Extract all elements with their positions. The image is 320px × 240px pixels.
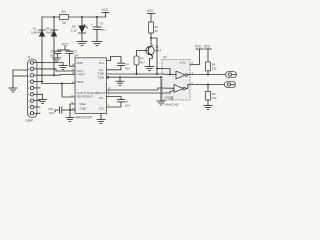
svg-text:VDD: VDD [77, 61, 84, 65]
svg-text:104: 104 [125, 67, 130, 71]
node collector branch [156, 68, 158, 70]
svg-text:47u: 47u [101, 28, 106, 32]
svg-text:DB9F: DB9F [26, 119, 34, 123]
resistor R1 [60, 10, 69, 25]
ground left-bottom [66, 118, 74, 122]
svg-text:104: 104 [74, 54, 79, 58]
IC pin numbers left [72, 63, 75, 111]
wire R6 to gnd [207, 100, 209, 106]
wire pin2 to IC [40, 69, 76, 71]
svg-text:104: 104 [125, 104, 130, 108]
wire collector branch to box [157, 68, 162, 70]
svg-text:5.1Z: 5.1Z [71, 29, 77, 33]
connector P2 [225, 82, 236, 88]
wire loop1 return [107, 66, 122, 70]
power VCC R5 [204, 45, 212, 62]
node bus-zener [81, 16, 83, 18]
node collector joinA [156, 73, 158, 75]
ground under zener [77, 42, 87, 46]
connector J1 DB9 [26, 55, 38, 123]
zener D6 [71, 17, 88, 42]
op-amp U1 IC box [75, 58, 107, 120]
resistor R3 [134, 56, 145, 65]
op-amp U2 module box [162, 55, 190, 106]
wire top power bus [42, 16, 106, 18]
svg-text:1N4148: 1N4148 [46, 31, 56, 35]
svg-text:1N4148: 1N4148 [31, 31, 41, 35]
svg-text:R3OUT: R3OUT [96, 91, 106, 95]
wire loopback [62, 84, 76, 98]
svg-text:GND: GND [80, 107, 88, 111]
wire pin3 to IC [40, 74, 76, 77]
node R6 top [207, 84, 209, 86]
node d2 join [53, 74, 55, 76]
transistor Q1 [140, 45, 162, 57]
node loopback [61, 83, 63, 85]
ground mid [116, 81, 124, 85]
wire collector to box [151, 38, 157, 74]
wire VCC riser [105, 13, 107, 18]
svg-text:VEE: VEE [80, 102, 86, 106]
wire gnd drop right [160, 77, 162, 101]
gate G2 [162, 85, 190, 94]
pin numbers right mid [108, 87, 111, 107]
svg-text:MAX202CP: MAX202CP [76, 116, 93, 120]
svg-text:T RXT: T RXT [77, 73, 86, 77]
wire line A T1OUT [107, 73, 163, 75]
svg-text:R1N R2OUT: R1N R2OUT [77, 95, 94, 99]
DB9 pins [30, 61, 33, 115]
capacitor C4 [118, 62, 131, 71]
svg-text:C4: C4 [125, 62, 129, 66]
diode D2 [46, 27, 58, 37]
wire R5 to lineA [207, 71, 209, 75]
wire pin1 ground drop [40, 63, 63, 66]
node R3 bottom [136, 73, 138, 75]
svg-text:T2IN: T2IN [98, 76, 105, 80]
svg-text:10: 10 [62, 21, 66, 25]
wire DB9 shield left2 [13, 75, 28, 77]
wire IC bottom gnd [100, 114, 102, 120]
wire base [137, 51, 141, 57]
wire charge pump loop2 [107, 97, 122, 100]
resistor R6 [205, 85, 217, 101]
svg-text:9014: 9014 [155, 49, 162, 53]
ground mid-left [59, 66, 67, 70]
capacitor C3 [118, 100, 131, 108]
ground C5 [53, 58, 61, 62]
svg-text:512: 512 [212, 96, 217, 100]
wire IC GND left with cap [62, 109, 75, 111]
node vee-gnd [69, 109, 71, 111]
svg-text:R1IN: R1IN [77, 80, 84, 84]
ground shield [9, 88, 17, 92]
svg-text:J1: J1 [27, 55, 31, 59]
wire IC VEE left [70, 104, 75, 118]
ground under C6 [92, 42, 102, 46]
wire gnd drop mid [119, 77, 121, 81]
wire diode D2 vertical [53, 17, 55, 75]
capacitor C1 [48, 107, 62, 115]
svg-text:104: 104 [49, 111, 54, 115]
wire line C [107, 88, 163, 90]
wire charge pump loop1 [107, 57, 122, 64]
svg-text:4K7: 4K7 [140, 61, 145, 65]
svg-text:+: + [91, 23, 93, 27]
svg-text:R1: R1 [62, 10, 66, 14]
power VCC R2 [147, 9, 155, 22]
wire line D [107, 92, 163, 94]
power VCC top [102, 8, 110, 13]
svg-text:C2+: C2+ [99, 107, 105, 111]
wire R2 to collector [150, 33, 152, 45]
svg-text:VCC: VCC [204, 45, 211, 49]
resistor R5 [205, 62, 217, 71]
gate G1 [162, 69, 190, 80]
wire R3 to lineA [136, 65, 138, 74]
svg-text:VCC: VCC [180, 61, 187, 65]
connector P1 [226, 72, 237, 78]
wire line B gnd [107, 76, 109, 78]
wire out1 [190, 74, 226, 76]
wire out2 [190, 84, 225, 86]
power VCC module [190, 45, 203, 65]
node VCC decoupling [58, 43, 70, 51]
ground Q1 emitter [145, 67, 154, 71]
svg-text:VCC: VCC [102, 8, 109, 12]
svg-text:512: 512 [212, 67, 217, 71]
node d1 join [41, 81, 43, 83]
svg-text:VCC: VCC [195, 45, 202, 49]
DB9 pin numbers [28, 63, 30, 116]
diode D1 [31, 27, 45, 37]
node R5 out [207, 74, 209, 76]
U2 pin numbers right [192, 62, 194, 85]
wire loop2 return [107, 102, 122, 107]
svg-text:C2-: C2- [99, 96, 104, 100]
ground R6 [204, 106, 212, 110]
capacitor C6 electrolytic [91, 17, 107, 42]
node bus-d2 [53, 16, 55, 18]
wire DB9 shield left [13, 70, 28, 88]
wire pin6 ground drop [40, 94, 43, 99]
resistor R2 [148, 22, 158, 33]
capacitor C5 [50, 50, 61, 59]
wire pin4 to IC [40, 82, 76, 84]
node line B right [160, 76, 162, 78]
wire emitter [150, 56, 153, 67]
svg-text:VCC: VCC [147, 9, 154, 13]
svg-text:U2: U2 [163, 55, 167, 59]
node collector [150, 37, 152, 39]
capacitor C2 [66, 50, 79, 67]
svg-text:104: 104 [50, 54, 55, 58]
wire U2 gnd stub [171, 97, 173, 101]
svg-text:C6: C6 [100, 22, 104, 26]
ground IC bottom [97, 120, 105, 124]
svg-text:74AHC14D: 74AHC14D [164, 102, 180, 106]
node gnd tap [119, 76, 121, 78]
svg-text:C1+: C1+ [99, 61, 105, 65]
ground right mid [157, 101, 165, 105]
ground pin6 [39, 100, 47, 104]
svg-text:1K: 1K [155, 29, 159, 33]
node bus-cap [96, 16, 98, 18]
DB9 pin stubs [34, 63, 40, 114]
svg-text:GND: GND [165, 95, 173, 99]
wire diode D1 vertical [41, 17, 43, 82]
